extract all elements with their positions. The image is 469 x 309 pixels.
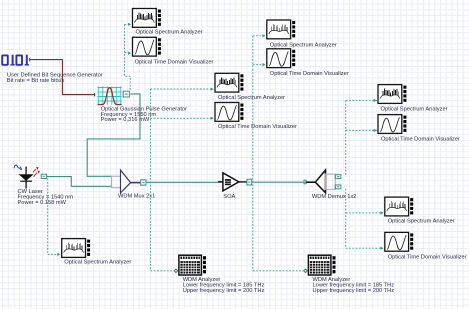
svg-text:Optical Time Domain Visualizer: Optical Time Domain Visualizer [381,137,460,143]
svg-text:Power = 0.158 mW: Power = 0.158 mW [18,200,67,206]
wire: dashed monitor line WDM Demux output 2 to OSA 5 and OTDV 5 [346,189,382,248]
Optical Spectrum Analyzer 3 [211,73,244,92]
Optical Spectrum Analyzer 2 [262,20,295,39]
svg-text:WDM Demux 1x2: WDM Demux 1x2 [312,194,357,200]
wire: dashed monitor line WDM Mux output to OSA 3, OTDV 3, WDM Analyzer 1 [150,89,211,271]
WDM Analyzer 2 [304,255,336,275]
Optical Time Domain Visualizer 4 [374,115,407,134]
wire: dashed monitor line WDM Demux output 1 to OSA 4 and OTDV 4 [346,100,378,176]
SOA [218,173,252,191]
WDM Mux 2x1 [112,170,146,193]
Optical Spectrum Analyzer 4 [374,85,407,104]
WDM Analyzer 1 [174,255,206,275]
svg-text:Bit rate = Bit rate bits/s: Bit rate = Bit rate bits/s [7,78,65,84]
svg-text:WDM Mux 2x1: WDM Mux 2x1 [118,194,155,200]
wire: dashed monitor line pulse generator to OSA 1 and OTDV 1 [125,24,131,90]
wire: CW Laser to WDM Mux input 2 [47,177,112,187]
Optical Time Domain Visualizer 5 [380,232,413,251]
svg-text:Optical Spectrum Analyzer: Optical Spectrum Analyzer [64,260,131,266]
svg-text:Optical Time Domain Visualizer: Optical Time Domain Visualizer [218,124,297,130]
port tick on 0101 output [29,58,31,61]
svg-text:Optical Spectrum Analyzer: Optical Spectrum Analyzer [388,219,455,225]
svg-text:Upper frequency limit = 200 T: Upper frequency limit = 200 THz [183,288,265,294]
CW Laser [14,165,47,189]
wire: dashed monitor line SOA output to OSA 2, OTDV 2, WDM Analyzer 2 [253,36,305,271]
Optical Time Domain Visualizer 2 [262,49,295,68]
wire: dashed monitor line CW Laser to OSA 6 [48,179,57,255]
svg-text:Optical Spectrum Analyzer: Optical Spectrum Analyzer [218,95,285,101]
svg-text:Optical Time Domain Visualizer: Optical Time Domain Visualizer [388,254,467,260]
Optical Time Domain Visualizer 1 [128,37,161,56]
svg-text:Optical Time Domain Visualizer: Optical Time Domain Visualizer [270,71,349,77]
wire: Gaussian pulse generator to WDM Mux input 1 [87,94,140,176]
Optical Time Domain Visualizer 3 [211,103,244,122]
svg-text:Upper frequency limit = 200 T: Upper frequency limit = 200 THz [313,288,395,294]
svg-text:Optical Time Domain Visualizer: Optical Time Domain Visualizer [135,59,214,65]
Optical Gaussian Pulse Generator [97,86,129,104]
Optical Spectrum Analyzer 1 [128,9,161,28]
svg-text:Optical Spectrum Analyzer: Optical Spectrum Analyzer [136,30,203,36]
Optical Spectrum Analyzer 5 [380,197,413,216]
svg-text:Power = 0.316 mW: Power = 0.316 mW [101,117,150,123]
WDM Demux 1x2 [304,170,341,193]
wire: red wire from bit sequence generator to pulse generator [29,60,95,97]
svg-text:Optical Spectrum Analyzer: Optical Spectrum Analyzer [381,106,448,112]
wire: WDM Mux to SOA [146,181,218,183]
svg-text:SOA: SOA [223,194,235,200]
wire: SOA to WDM Demux [252,181,307,183]
User Defined Bit Sequence Generator 0101 display [2,55,29,65]
Optical Spectrum Analyzer 6 [57,239,90,258]
svg-text:Optical Spectrum Analyzer: Optical Spectrum Analyzer [270,42,337,48]
